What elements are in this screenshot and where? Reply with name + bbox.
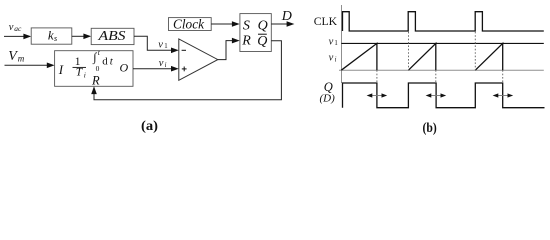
wire vac input: [4, 34, 31, 40]
svg-text:v: v: [158, 40, 163, 51]
block ABS: [91, 28, 134, 45]
dotted gridline fall 2: [435, 70, 437, 83]
svg-text:k: k: [48, 28, 54, 43]
svg-text:0: 0: [96, 64, 100, 73]
node v1 label: [158, 40, 167, 51]
svg-text:i: i: [165, 62, 167, 69]
pin Qbar: [257, 34, 267, 49]
svg-text:v: v: [9, 22, 14, 33]
wire ks to ABS: [72, 34, 91, 40]
svg-text:Clock: Clock: [173, 17, 205, 32]
node Vm label: [8, 49, 25, 64]
svg-text:v: v: [329, 53, 334, 64]
svg-text:R: R: [241, 34, 251, 49]
marker arrows edge 1: [367, 93, 388, 97]
wire v1 level line: [341, 42, 544, 44]
svg-text:ABS: ABS: [97, 28, 125, 43]
svg-text:t: t: [110, 55, 114, 67]
wire Clock to S input: [211, 21, 240, 27]
dotted gridline fall 1: [376, 70, 378, 83]
node vi label: [159, 58, 167, 69]
svg-text:(b): (b): [423, 120, 437, 135]
wire Q waveform: [343, 83, 545, 108]
node vi row label: [329, 53, 337, 64]
svg-text:D: D: [281, 9, 292, 24]
svg-text:v: v: [159, 58, 164, 69]
svg-text:R: R: [91, 73, 100, 87]
block Clock: [169, 17, 212, 32]
svg-text:Q: Q: [258, 18, 268, 33]
marker arrows edge 3: [493, 93, 514, 97]
block integrator: [55, 51, 133, 87]
svg-text:I: I: [58, 62, 64, 77]
svg-text:1: 1: [164, 43, 167, 50]
wire CLK waveform: [343, 12, 544, 31]
wire integrator O to comparator plus, node vi: [133, 66, 179, 72]
op-amp comparator: [179, 39, 218, 80]
svg-text:∫: ∫: [92, 50, 97, 64]
svg-text:T: T: [76, 66, 84, 78]
svg-text:S: S: [243, 18, 250, 33]
svg-text:(D): (D): [320, 93, 336, 105]
wire Vm input: [5, 63, 55, 69]
marker arrows edge 2: [426, 93, 447, 97]
svg-text:v: v: [329, 36, 334, 47]
node vac label: [9, 22, 22, 33]
svg-text:CLK: CLK: [314, 14, 338, 28]
wire comparator out to R input: [218, 38, 240, 60]
wire ABS to comparator minus, node v1: [134, 36, 179, 53]
svg-text:s: s: [54, 34, 57, 43]
svg-text:V: V: [8, 49, 18, 64]
value integral 0 to t dt: [92, 48, 114, 73]
svg-text:(a): (a): [141, 119, 158, 134]
dotted gridline period 3: [474, 32, 476, 70]
wire vi zero gray baseline: [339, 69, 544, 71]
svg-text:ac: ac: [14, 24, 22, 33]
dotted gridline period 2: [408, 32, 410, 70]
svg-text:t: t: [98, 48, 101, 57]
svg-text:i: i: [335, 57, 337, 64]
wire vi ramp 3: [475, 43, 502, 70]
value 1/Ti: [73, 56, 87, 80]
svg-text:1: 1: [334, 40, 337, 47]
svg-text:d: d: [102, 55, 108, 67]
svg-text:m: m: [18, 53, 25, 63]
svg-text:O: O: [120, 60, 129, 74]
wire vi ramp 1: [341, 43, 377, 70]
dotted gridline fall 3: [502, 70, 504, 83]
svg-text:Q: Q: [257, 34, 267, 49]
node v1 row label: [329, 36, 338, 47]
block SR latch: [240, 14, 271, 52]
svg-text:i: i: [84, 71, 86, 80]
axis gray vertical line: [341, 5, 343, 83]
block ks: [31, 28, 72, 45]
wire vi ramp 2: [408, 43, 435, 70]
wire Q to D output: [271, 21, 294, 27]
wire Qbar feedback to integrator R: [91, 41, 281, 100]
